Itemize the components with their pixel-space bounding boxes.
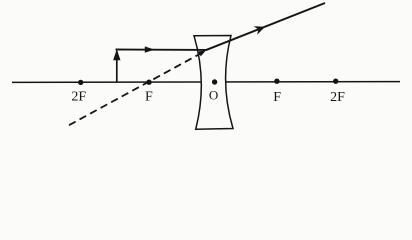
svg-text:F: F — [145, 90, 153, 105]
svg-text:F: F — [273, 90, 281, 105]
svg-text:2F: 2F — [330, 90, 345, 105]
svg-text:O: O — [209, 88, 218, 103]
svg-text:2F: 2F — [71, 90, 86, 105]
